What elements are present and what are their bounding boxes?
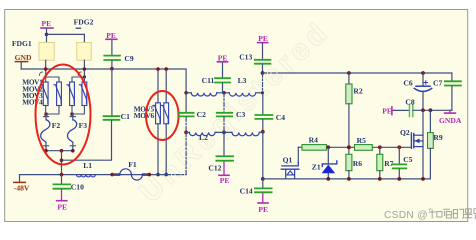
svg-text:C10: C10 — [71, 182, 84, 191]
varistor MOV3 — [67, 82, 74, 106]
capacitor C6 — [403, 71, 431, 110]
wire C2 column to bus — [185, 132, 187, 174]
node mid bus R5 left — [347, 145, 351, 149]
PE port below C10 — [57, 190, 68, 212]
node C9-bus — [110, 67, 114, 71]
capacitor C8 — [405, 97, 452, 116]
node MOV34 — [70, 113, 73, 116]
transistor Q1 — [281, 147, 299, 179]
wire MOV4 stub — [83, 77, 85, 82]
wire C13 column down — [262, 73, 264, 93]
wire column to C4 — [262, 93, 264, 115]
wire top bus right — [263, 72, 452, 74]
svg-text:R6: R6 — [353, 159, 362, 168]
wire C4 to L2 junction — [262, 120, 264, 132]
capacitor C9 — [104, 54, 134, 69]
wire F2-F3 bottom tie — [46, 150, 73, 152]
PE port above C9 — [106, 31, 117, 55]
svg-text:PE: PE — [258, 205, 268, 214]
wire MOV1 stub — [45, 77, 47, 82]
varistor MOV2 — [54, 82, 61, 106]
wire PE to FDG2 — [47, 34, 85, 42]
node F2 bottom — [44, 149, 48, 153]
wire PE to FDG1 — [46, 34, 48, 42]
PE port below C14 — [258, 193, 268, 214]
node MOV4 tie — [83, 75, 86, 78]
node R9 top — [429, 108, 433, 112]
label MOV5 MOV6 — [134, 105, 155, 121]
svg-text:FDG2: FDG2 — [74, 17, 94, 26]
node MOV12 — [44, 113, 47, 116]
resistor R6 — [346, 145, 362, 178]
svg-text:L3: L3 — [238, 76, 247, 85]
svg-text:C12: C12 — [208, 164, 221, 173]
svg-text:Q1: Q1 — [283, 155, 293, 164]
svg-text:C1: C1 — [121, 112, 130, 121]
svg-text:MOV6: MOV6 — [134, 111, 155, 120]
inductor L3a — [191, 93, 217, 96]
capacitor C4 — [255, 113, 285, 122]
svg-text:PE: PE — [382, 106, 392, 115]
svg-text:C14: C14 — [240, 187, 253, 196]
svg-text:PE: PE — [220, 176, 230, 185]
wire MOV3-MOV4 bottom tie — [72, 106, 84, 115]
node C3-L2 — [222, 131, 226, 135]
wire main upper bus — [21, 69, 186, 93]
svg-text:C11: C11 — [202, 76, 215, 85]
svg-text:R5: R5 — [357, 136, 366, 145]
inductor L3 — [229, 76, 255, 96]
svg-text:R2: R2 — [353, 87, 362, 96]
node F3 bottom — [71, 149, 75, 153]
wire filter bottom — [186, 131, 263, 134]
wire MOV1 bottom stub — [45, 106, 47, 115]
svg-text:MOV4: MOV4 — [22, 98, 43, 107]
node C6 bottom — [421, 108, 425, 112]
varistor MOV4 — [79, 82, 86, 106]
wire C3 down — [223, 117, 225, 132]
node FDG2-bus — [83, 67, 87, 71]
wire FDG2 stub — [83, 60, 85, 77]
svg-text:C5: C5 — [403, 155, 412, 164]
wire FDG1 stub — [45, 60, 47, 77]
node Q2 bottom — [421, 177, 425, 181]
svg-text:FDG1: FDG1 — [12, 39, 32, 48]
resistor R4 — [302, 135, 327, 150]
watermark CSDN — [384, 210, 428, 221]
node C11 junction — [222, 91, 226, 95]
zener Z1 — [312, 145, 337, 178]
wire MOV1-MOV2 top tie — [46, 77, 59, 82]
svg-text:C8: C8 — [405, 97, 414, 106]
fuse F1 — [110, 160, 151, 180]
svg-text:GNDA: GNDA — [439, 116, 462, 125]
node tie center — [60, 149, 64, 153]
node Z1 bottom — [326, 177, 330, 181]
svg-text:R4: R4 — [309, 135, 318, 144]
wire C4 column to bottom bus — [262, 132, 264, 179]
spark gap arc FDG2 — [78, 72, 81, 76]
node C5 bottom — [397, 177, 401, 181]
svg-text:F3: F3 — [79, 121, 88, 130]
GND port — [15, 53, 32, 69]
inductor L2b — [232, 132, 259, 135]
diagonal watermark — [133, 14, 337, 209]
capacitor C5 — [393, 145, 413, 178]
node C2-L2 — [184, 131, 188, 135]
node FDG1-bus — [44, 67, 48, 71]
capacitor C14 — [240, 179, 272, 196]
wire C2 down — [185, 117, 187, 132]
wire tie to bus — [61, 151, 63, 175]
PE port below C12 — [219, 162, 230, 186]
resistor R5 — [355, 136, 373, 151]
PE port above C13 — [258, 34, 268, 59]
FDG2 — [74, 17, 94, 60]
PE port top-left — [41, 19, 53, 35]
ground GNDA — [439, 110, 462, 125]
svg-text:Q2: Q2 — [400, 128, 410, 137]
capacitor C7 — [433, 73, 461, 110]
varistor MOV1 — [41, 82, 48, 106]
wire Q2 drain column — [422, 110, 424, 179]
breaker F2 — [41, 114, 61, 151]
ellipse highlight 1 — [36, 65, 91, 165]
node filter top left — [184, 91, 188, 95]
wire MOV1-MOV2 bottom tie — [46, 106, 59, 115]
svg-text:L1: L1 — [83, 161, 92, 170]
resistor R2 — [346, 71, 363, 147]
svg-text:PE: PE — [258, 34, 268, 43]
PE port at C8 — [382, 106, 408, 115]
node R6 bottom — [347, 177, 351, 181]
inductor L1 — [77, 161, 96, 177]
capacitor C10 — [53, 175, 84, 192]
capacitor C12 — [208, 132, 233, 172]
resistor R7 — [377, 145, 394, 178]
svg-text:C13: C13 — [239, 52, 252, 61]
node crossover — [60, 158, 64, 162]
resistor R9 — [428, 110, 443, 179]
svg-text:PE: PE — [57, 203, 67, 212]
node C13-bus — [261, 71, 265, 75]
breaker F3 — [67, 114, 87, 151]
svg-text:F2: F2 — [52, 121, 61, 130]
svg-text:R9: R9 — [433, 133, 442, 142]
wire MOV3-MOV4 top tie — [72, 77, 84, 82]
wire bus dashed tail — [167, 174, 187, 176]
node L2 right — [261, 130, 265, 134]
svg-text:C2: C2 — [197, 110, 206, 119]
svg-text:C4: C4 — [276, 113, 285, 122]
svg-text:C3: C3 — [236, 110, 245, 119]
label MOV1-4 — [22, 78, 43, 107]
wire Q1 bottom bus — [263, 178, 431, 180]
capacitor C1 — [104, 112, 130, 121]
svg-text:C7: C7 — [433, 78, 442, 87]
inductor L2 — [189, 132, 215, 142]
transistor Q2 — [400, 128, 423, 148]
capacitor C13 — [239, 52, 270, 73]
svg-text:F1: F1 — [128, 160, 137, 169]
svg-text:-48V: -48V — [14, 183, 30, 192]
PE port above C11 — [217, 53, 227, 77]
FDG1 — [12, 39, 54, 60]
svg-text:PE: PE — [42, 19, 52, 28]
wire C9 to C1 — [111, 69, 113, 116]
varistor MOV5 — [153, 67, 160, 176]
node R7 bottom — [378, 177, 382, 181]
wire filter top — [186, 92, 262, 94]
svg-text:C6: C6 — [403, 78, 412, 87]
node L3 right — [261, 91, 264, 94]
ellipse highlight 2 — [146, 91, 179, 140]
svg-text:Z1: Z1 — [312, 162, 321, 171]
varistor MOV6 — [161, 67, 168, 176]
wire mid bus — [298, 146, 411, 148]
svg-text:C9: C9 — [124, 54, 133, 63]
svg-text:CSDN @: CSDN @ — [384, 210, 428, 221]
node bottom bus left — [261, 177, 265, 181]
port -48V — [14, 175, 30, 193]
capacitor C2 — [178, 93, 206, 119]
wire -48V bus — [20, 174, 167, 176]
capacitor C11 — [202, 76, 230, 93]
node bus-C10 — [60, 173, 64, 177]
spark gap arc FDG1 — [39, 72, 42, 76]
capacitor C3 — [217, 93, 246, 119]
wire C1 return — [62, 121, 112, 160]
node PE junction — [45, 33, 49, 37]
